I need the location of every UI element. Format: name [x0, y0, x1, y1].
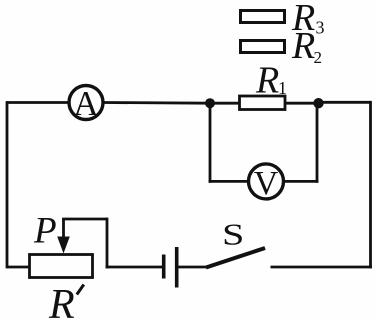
battery negative plate (short)	[162, 255, 166, 279]
resistor R1	[240, 60, 288, 110]
svg-text:V: V	[254, 165, 279, 202]
rheostat wiper arrow	[57, 219, 70, 254]
node B junction dot	[313, 98, 323, 108]
svg-text:2: 2	[314, 48, 323, 67]
battery positive plate (long)	[175, 247, 179, 288]
wire ammeter to node A	[103, 101, 210, 104]
rheostat R' body	[30, 255, 93, 319]
svg-text:R: R	[48, 282, 75, 319]
wire voltmeter branch right vertical	[316, 103, 319, 183]
ammeter U=A	[69, 84, 103, 123]
wire voltmeter branch left horizontal	[209, 180, 249, 183]
svg-text:1: 1	[278, 78, 287, 98]
wire top left horizontal	[7, 101, 69, 104]
wire wiper step vertical	[106, 218, 109, 269]
svg-text:R: R	[291, 25, 315, 67]
switch S blade	[206, 248, 265, 268]
wire voltmeter branch right horizontal	[284, 180, 319, 183]
resistor R2	[241, 25, 323, 67]
svg-text:S: S	[222, 217, 244, 251]
svg-text:R: R	[255, 60, 279, 102]
wire R1 to node B	[285, 102, 319, 105]
wire switch fixed contact to bottom right	[271, 266, 372, 269]
svg-text:3: 3	[316, 18, 325, 38]
wire voltmeter branch left vertical	[209, 103, 212, 183]
wire bottom left to rheostat	[7, 266, 29, 269]
wire wiper step horizontal	[62, 218, 107, 221]
node A junction dot	[205, 98, 215, 108]
wire battery to switch pivot	[179, 266, 208, 269]
resistor R3	[241, 0, 325, 39]
svg-text:A: A	[73, 84, 99, 123]
wire right vertical	[369, 101, 372, 269]
svg-text:P: P	[33, 211, 57, 252]
voltmeter U=V	[249, 164, 284, 202]
wire node B to top right corner	[319, 101, 371, 104]
wire left vertical	[6, 101, 9, 268]
wire node A to R1	[210, 102, 240, 105]
wire step to battery	[106, 266, 162, 269]
